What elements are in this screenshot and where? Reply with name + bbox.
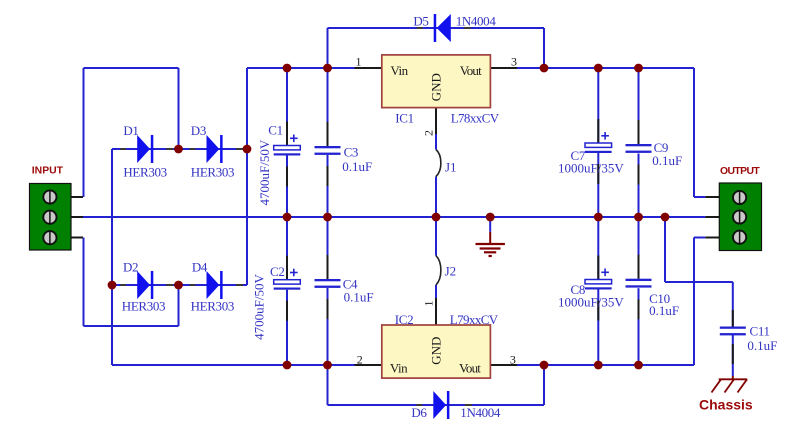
svg-text:Vout: Vout xyxy=(459,360,481,375)
svg-text:HER303: HER303 xyxy=(122,298,165,313)
svg-text:0.1uF: 0.1uF xyxy=(344,290,374,305)
svg-text:IC1: IC1 xyxy=(395,110,413,125)
svg-text:Vout: Vout xyxy=(460,63,482,78)
svg-text:C11: C11 xyxy=(750,323,770,338)
svg-text:OUTPUT: OUTPUT xyxy=(720,166,760,177)
svg-text:1000uF/35V: 1000uF/35V xyxy=(558,295,624,310)
svg-text:D3: D3 xyxy=(191,123,206,138)
svg-text:3: 3 xyxy=(510,353,516,367)
svg-text:3: 3 xyxy=(511,55,517,69)
svg-text:GND: GND xyxy=(428,73,443,101)
svg-text:1N4004: 1N4004 xyxy=(456,14,497,29)
svg-text:1: 1 xyxy=(356,55,362,69)
svg-text:0.1uF: 0.1uF xyxy=(652,153,682,168)
svg-text:D4: D4 xyxy=(192,260,208,275)
svg-text:D2: D2 xyxy=(123,260,138,275)
svg-text:D1: D1 xyxy=(123,123,138,138)
svg-text:1N4004: 1N4004 xyxy=(460,405,501,420)
svg-text:Vin: Vin xyxy=(390,360,408,375)
svg-text:2: 2 xyxy=(357,353,363,367)
svg-text:INPUT: INPUT xyxy=(32,166,64,177)
svg-text:D6: D6 xyxy=(411,405,427,420)
svg-text:HER303: HER303 xyxy=(123,165,166,180)
svg-text:HER303: HER303 xyxy=(191,165,234,180)
svg-text:C2: C2 xyxy=(270,264,284,279)
svg-text:Vin: Vin xyxy=(390,63,408,78)
svg-text:L79xxCV: L79xxCV xyxy=(450,312,499,327)
svg-text:J1: J1 xyxy=(445,160,457,175)
svg-text:J2: J2 xyxy=(445,264,457,279)
svg-text:C3: C3 xyxy=(344,145,358,160)
svg-text:4700uF/50V: 4700uF/50V xyxy=(257,139,272,205)
svg-text:1000uF/35V: 1000uF/35V xyxy=(558,161,624,176)
svg-text:D5: D5 xyxy=(413,14,428,29)
svg-text:0.1uF: 0.1uF xyxy=(747,338,777,353)
svg-text:4700uF/50V: 4700uF/50V xyxy=(251,274,266,340)
svg-text:C1: C1 xyxy=(268,123,282,138)
svg-text:0.1uF: 0.1uF xyxy=(342,159,372,174)
svg-text:GND: GND xyxy=(428,337,443,365)
svg-text:L78xxCV: L78xxCV xyxy=(451,110,500,125)
svg-text:2: 2 xyxy=(421,130,435,136)
svg-text:Chassis: Chassis xyxy=(699,397,753,413)
svg-text:1: 1 xyxy=(421,301,435,307)
svg-text:HER303: HER303 xyxy=(191,298,234,313)
svg-text:0.1uF: 0.1uF xyxy=(649,303,679,318)
svg-text:IC2: IC2 xyxy=(395,312,413,327)
